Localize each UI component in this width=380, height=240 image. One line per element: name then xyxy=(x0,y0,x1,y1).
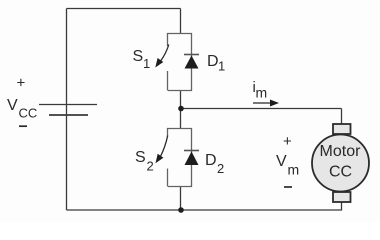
svg-text:m: m xyxy=(288,161,300,177)
svg-text:m: m xyxy=(256,85,268,101)
svg-text:V: V xyxy=(276,153,287,170)
svg-text:Motor: Motor xyxy=(320,143,362,160)
svg-text:2: 2 xyxy=(147,158,154,173)
svg-text:S: S xyxy=(135,149,146,166)
svg-text:1: 1 xyxy=(218,59,225,74)
svg-text:1: 1 xyxy=(143,56,150,71)
svg-text:CC: CC xyxy=(19,106,38,121)
svg-text:+: + xyxy=(17,74,26,91)
svg-text:D: D xyxy=(207,53,219,70)
svg-text:V: V xyxy=(7,97,18,114)
svg-text:CC: CC xyxy=(329,164,352,181)
svg-text:+: + xyxy=(283,133,292,150)
svg-text:D: D xyxy=(205,152,217,169)
svg-text:S: S xyxy=(133,48,144,65)
svg-text:2: 2 xyxy=(217,161,224,176)
